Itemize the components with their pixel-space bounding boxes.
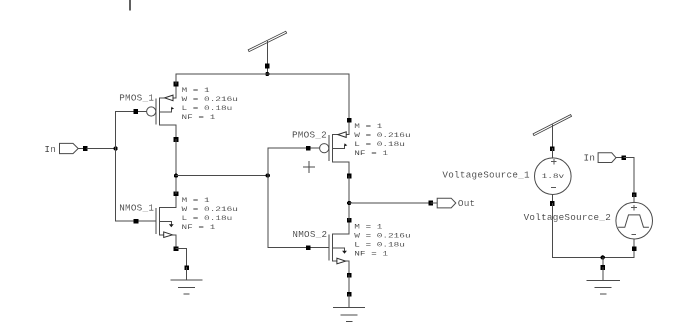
pin square PMOS_2 source (top) (347, 118, 352, 123)
svg-text:PMOS_2: PMOS_2 (292, 130, 327, 141)
pin square NMOS_1 source (bottom) (174, 246, 179, 251)
pin square ground 3 (601, 265, 606, 270)
junction node A (113, 146, 117, 150)
wire node A vertical (115, 112, 117, 222)
pin square vdd (right) / VoltageSource_1 plus (550, 146, 555, 151)
svg-text:L = 0.18u: L = 0.18u (182, 215, 233, 222)
pin square PMOS_1 source (top) (174, 82, 179, 87)
pin square VoltageSource_1 minus (550, 201, 555, 206)
pin square PMOS_2 drain (bottom) (347, 174, 352, 179)
svg-text:L = 0.18u: L = 0.18u (354, 141, 405, 148)
wire stage1 output vertical (175, 140, 177, 194)
wire Out node to port (349, 202, 431, 204)
pin square NMOS_2 gate (306, 245, 311, 250)
value label PMOS_2 (354, 123, 410, 158)
pin square NMOS_1 gate (134, 219, 139, 224)
svg-text:M = 1: M = 1 (354, 223, 382, 230)
wire to NMOS_2 gate (268, 247, 329, 249)
wire NMOS_1 source to ground (176, 249, 187, 268)
wire rail to PMOS_2 source (348, 74, 350, 120)
pin square ground 1 (184, 265, 189, 270)
port In (right) flag (598, 153, 624, 163)
svg-text:M = 1: M = 1 (354, 123, 382, 130)
wire stage2 input vertical (267, 148, 269, 247)
svg-text:VoltageSource_2: VoltageSource_2 (524, 212, 611, 223)
pin square NMOS_2 source (bottom) (347, 273, 352, 278)
ground symbol 3 (587, 268, 619, 295)
transistor NMOS_2 (329, 220, 349, 275)
transistor PMOS_2 (320, 120, 350, 176)
pin square ground 2 (347, 292, 352, 297)
wire bottom rail (552, 256, 634, 258)
pin square vdd (left) (265, 64, 270, 69)
value label NMOS_2 (354, 223, 410, 258)
wire node A to NMOS_1 gate (116, 220, 156, 222)
pin square NMOS_1 drain (top) (174, 191, 179, 196)
svg-text:W = 0.216u: W = 0.216u (354, 132, 410, 139)
svg-text:NF = 1: NF = 1 (182, 114, 216, 121)
svg-text:NF = 1: NF = 1 (354, 150, 388, 157)
value label NMOS_1 (182, 197, 238, 232)
svg-text:W = 0.216u: W = 0.216u (182, 96, 238, 103)
wire In right to VoltageSource_2 (624, 158, 634, 195)
svg-text:W = 0.216u: W = 0.216u (182, 206, 238, 213)
svg-text:NF = 1: NF = 1 (182, 224, 216, 231)
wire rail to PMOS_1 source (175, 74, 177, 84)
pin square VoltageSource_2 plus (632, 192, 637, 197)
voltage source VoltageSource_2 (616, 195, 653, 258)
pin square In port (83, 146, 88, 151)
svg-text:Out: Out (458, 198, 476, 209)
pin square PMOS_2 gate (306, 146, 311, 151)
value label PMOS_1 (182, 87, 238, 122)
wire stage1 out to stage2 in (176, 175, 268, 177)
pin square PMOS_1 drain (bottom) (174, 137, 179, 142)
wire junction to ground 3 (602, 257, 604, 267)
voltage source VoltageSource_1 (535, 149, 572, 204)
power vdd symbol (right) (534, 116, 570, 149)
pin square PMOS_1 gate (134, 109, 139, 114)
svg-text:In: In (584, 152, 596, 163)
svg-text:L = 0.18u: L = 0.18u (182, 105, 233, 112)
junction vdd rail (265, 72, 269, 76)
wire VoltageSource_1 to bottom rail (551, 204, 553, 258)
transistor PMOS_1 (147, 84, 176, 140)
cursor cross (303, 161, 314, 172)
svg-text:W = 0.216u: W = 0.216u (354, 232, 410, 239)
svg-text:M = 1: M = 1 (182, 197, 210, 204)
svg-text:L = 0.18u: L = 0.18u (354, 242, 405, 249)
junction Out node (347, 201, 351, 205)
svg-text:NMOS_1: NMOS_1 (119, 203, 154, 214)
svg-text:NMOS_2: NMOS_2 (292, 229, 327, 240)
pin square VoltageSource_2 minus (632, 247, 637, 252)
pin square Out port (429, 201, 434, 206)
pin square In (right) (622, 155, 627, 160)
junction ground rail (601, 255, 605, 259)
wire VDD rail (176, 73, 349, 75)
svg-text:1.8v: 1.8v (542, 173, 565, 180)
ground symbol 1 (171, 268, 202, 294)
transistor NMOS_1 (156, 194, 176, 249)
ground symbol 2 (334, 294, 365, 321)
stray wire stub top edge (129, 0, 131, 10)
svg-text:In: In (44, 144, 56, 155)
wire node A to PMOS_1 gate (116, 111, 147, 113)
wire to PMOS_2 gate (268, 147, 320, 149)
junction stage2 input (266, 173, 270, 177)
pin square NMOS_2 drain (top) (347, 218, 352, 223)
wire stage2 output vertical (348, 176, 350, 220)
port In (left) flag (60, 143, 86, 153)
wire In to node A (87, 148, 116, 150)
junction stage1 output (174, 173, 178, 177)
port Out flag (431, 198, 456, 208)
wire NMOS_2 source to ground (348, 275, 350, 294)
svg-text:M = 1: M = 1 (182, 87, 210, 94)
svg-text:PMOS_1: PMOS_1 (119, 93, 154, 104)
svg-text:VoltageSource_1: VoltageSource_1 (442, 170, 530, 181)
svg-text:NF = 1: NF = 1 (354, 251, 388, 258)
power vdd symbol (left) (250, 33, 286, 74)
